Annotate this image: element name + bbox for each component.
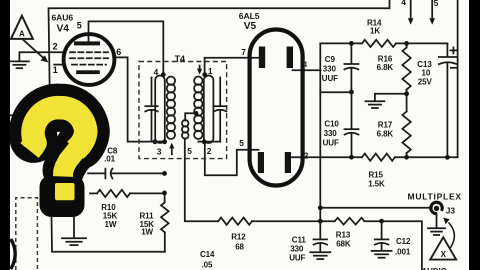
ground at V4 pin2 (10, 60, 29, 62)
ground under C11 (310, 251, 330, 253)
svg-text:C14: C14 (200, 250, 215, 259)
junction T4 pin2 (202, 139, 207, 144)
svg-text:4: 4 (401, 0, 406, 7)
junction R14/R16 node (404, 41, 409, 46)
arrow from A to V4 grid (23, 40, 44, 59)
svg-text:2: 2 (304, 150, 309, 160)
svg-text:R17: R17 (378, 121, 393, 130)
tube arc lower-left (11, 239, 15, 269)
svg-text:MULTIPLEX: MULTIPLEX (408, 192, 462, 202)
svg-text:J3: J3 (446, 206, 456, 216)
T4 tertiary top lead to tap (185, 113, 196, 120)
question mark outline bulge (hides C of C8) (84, 142, 104, 159)
capacitor C11 (314, 238, 328, 240)
wire top bus and left box outline (49, 0, 390, 252)
svg-text:6: 6 (116, 47, 121, 57)
jack J3 ring (431, 202, 442, 213)
svg-text:C13: C13 (417, 60, 432, 69)
resistor R11 (164, 193, 166, 202)
svg-text:2: 2 (207, 146, 212, 156)
svg-text:330: 330 (324, 129, 338, 138)
junction C12 node (379, 219, 384, 224)
question mark black outline hook (33, 108, 86, 146)
node A triangle (11, 16, 33, 39)
arrow from pin4 above (410, 0, 412, 19)
right letterbox bar (469, 0, 480, 270)
junction multiplex node (318, 205, 323, 210)
resistor R12 (218, 218, 252, 225)
wire multiplex jack feed (320, 207, 432, 209)
transformer T4 dashed box (139, 62, 227, 159)
left letterbox bar (0, 0, 10, 270)
svg-text:1W: 1W (141, 227, 153, 236)
junction C9 top (349, 41, 354, 46)
capacitor C8 (88, 172, 105, 174)
capacitor C9 (350, 43, 352, 63)
svg-text:330: 330 (290, 244, 304, 253)
svg-text:10: 10 (422, 69, 431, 78)
wire T4 pin5 down to R12 (185, 139, 218, 222)
wire V5 pin1 (293, 69, 321, 71)
svg-text:R12: R12 (231, 232, 246, 241)
wire cathode ground under question mark (73, 211, 75, 238)
triangle X terminal (430, 237, 456, 259)
wire V5 pin7 to T4 pin1 (205, 58, 260, 73)
svg-text:.001: .001 (395, 248, 411, 257)
svg-text:6.8K: 6.8K (377, 63, 394, 72)
resistor R17 (406, 94, 408, 112)
svg-text:3: 3 (157, 146, 162, 156)
T4 right capacitor (219, 78, 221, 106)
svg-text:5: 5 (434, 0, 439, 8)
V4 cathode (76, 70, 100, 74)
junction T4 pin1 (202, 72, 207, 77)
wire jack to ground (436, 215, 438, 228)
question mark dot black outline (40, 175, 85, 217)
svg-text:2: 2 (53, 41, 58, 51)
T4 primary winding coil (167, 77, 175, 85)
svg-text:T4: T4 (175, 54, 185, 64)
svg-text:1W: 1W (105, 220, 117, 229)
junction C10 bottom (349, 155, 354, 160)
V5 plate lower left (258, 152, 264, 173)
C13 plus sign (450, 47, 456, 53)
wire detector bus vertical x=320 (319, 43, 321, 238)
svg-text:6AU6: 6AU6 (52, 12, 74, 22)
C13 minus sign (451, 67, 457, 69)
svg-text:6AL5: 6AL5 (239, 11, 260, 21)
svg-text:.01: .01 (104, 155, 115, 164)
svg-text:A: A (19, 30, 25, 39)
T4 tuning arrow down (199, 66, 201, 70)
svg-text:C9: C9 (325, 55, 336, 64)
svg-text:UUF: UUF (289, 254, 305, 263)
svg-text:V5: V5 (244, 21, 257, 32)
T4 tertiary coil (182, 120, 189, 127)
svg-text:68K: 68K (336, 239, 351, 248)
junction R17 bottom (404, 155, 409, 160)
wire R12 to C11 node (252, 220, 335, 222)
svg-text:5: 5 (239, 138, 244, 148)
junction C8 node (162, 171, 167, 176)
svg-text:.05: .05 (202, 261, 213, 270)
svg-text:1K: 1K (370, 27, 380, 36)
V4 grid dashes (70, 51, 108, 53)
T4 pin3 rail (152, 141, 167, 143)
T4 tuning arrow up (171, 147, 173, 154)
wire V4 pin6 to T4 pin3 rail (113, 57, 166, 141)
wire V4 pin1 stub (54, 64, 64, 66)
wire right border up (457, 0, 459, 157)
wire C9 bottom to C10 top (320, 91, 351, 93)
wire R16 bottom to ground (375, 94, 407, 101)
svg-text:UUF: UUF (322, 74, 338, 83)
ground under question mark (62, 237, 86, 239)
V5 plate upper right (287, 47, 293, 69)
T4 primary slug (left capsule) (155, 76, 165, 144)
svg-text:V4: V4 (57, 23, 70, 34)
resistor R10 (90, 192, 97, 194)
wire top B+ line (320, 42, 362, 44)
question mark yellow dot (55, 183, 75, 200)
capacitor C12 (381, 221, 383, 239)
junction T4 pin4 (161, 72, 166, 77)
wire T4 pin2 to V5 pin5 (205, 144, 259, 175)
ground under jack (428, 227, 445, 229)
svg-text:4: 4 (154, 67, 159, 77)
T4 secondary winding coil (194, 77, 202, 85)
resistor R15 (362, 154, 395, 161)
svg-text:UUF: UUF (323, 139, 339, 148)
junction T4 pin3 a (153, 139, 158, 144)
V5 plate upper left (259, 47, 265, 69)
T4 tap junction (194, 111, 198, 115)
T4 secondary slug (right capsule) (204, 76, 214, 144)
wire R15 to C13 bottom (395, 156, 458, 158)
T4 left capacitor (151, 78, 153, 106)
svg-text:7: 7 (241, 47, 246, 57)
ground under C12 (372, 250, 392, 252)
resistor R14 (362, 40, 396, 47)
svg-text:X: X (441, 250, 447, 259)
junction C9 bottom (349, 90, 354, 95)
junction R10 node (162, 191, 167, 196)
svg-text:5: 5 (187, 146, 192, 156)
ground mid right (365, 100, 384, 102)
question mark yellow hook (30, 108, 86, 151)
wire V5 pin2 line (291, 156, 363, 158)
junction R16 ground node (404, 91, 409, 96)
tube V4 envelope (64, 34, 115, 85)
svg-text:R15: R15 (369, 170, 384, 179)
wire V4 pin2 to ground (19, 52, 65, 61)
tube V5 envelope (250, 30, 303, 186)
svg-text:C12: C12 (396, 237, 411, 246)
svg-text:1: 1 (208, 66, 213, 76)
wire stub left edge (10, 114, 20, 116)
svg-text:R16: R16 (378, 54, 393, 63)
question mark yellow stem (63, 146, 80, 177)
capacitor C10 (351, 93, 353, 129)
junction T4 pin3 b (162, 139, 167, 144)
curved arrow into jack (449, 223, 455, 249)
V4 plate (74, 41, 100, 45)
junction C13 bottom (445, 155, 450, 160)
wire R14 to C13 (396, 42, 447, 44)
capacitor C13 electrolytic (446, 43, 448, 56)
dashed box lower-left (16, 198, 38, 270)
wire R13 to audio out (365, 221, 422, 270)
arrow from pin5 above (431, 0, 433, 19)
svg-text:1.5K: 1.5K (368, 180, 385, 189)
resistor R13 (335, 218, 365, 225)
wire V4 pin5 plate to T4 pin4 (89, 21, 164, 73)
svg-text:68: 68 (235, 243, 244, 252)
svg-text:330: 330 (323, 65, 337, 74)
svg-text:C10: C10 (324, 120, 339, 129)
jack J3 center (434, 206, 439, 211)
svg-text:1: 1 (53, 65, 58, 75)
svg-text:6.8K: 6.8K (377, 130, 394, 139)
svg-text:25V: 25V (418, 78, 433, 87)
resistor R16 (406, 43, 408, 47)
question mark black outline stem (64, 148, 79, 170)
svg-text:5: 5 (77, 20, 82, 30)
junction R12/C11 node (318, 219, 323, 224)
V5 plate lower right (285, 152, 291, 173)
T4 pin2 rail stub (198, 141, 220, 143)
